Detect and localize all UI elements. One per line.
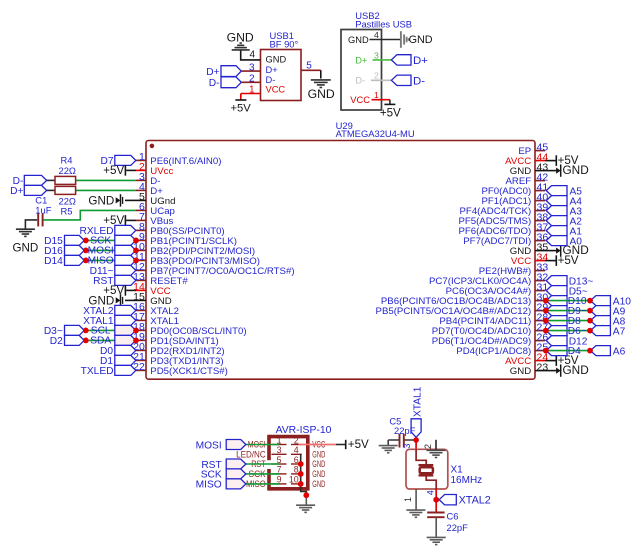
svg-text:GND: GND [312, 459, 325, 469]
svg-text:5: 5 [306, 60, 312, 71]
svg-text:3: 3 [277, 445, 282, 455]
svg-text:4: 4 [294, 445, 299, 455]
svg-text:MISO: MISO [88, 256, 114, 267]
svg-text:GND: GND [312, 450, 325, 460]
svg-text:+5V: +5V [380, 107, 401, 120]
svg-text:D14: D14 [44, 256, 63, 267]
svg-text:GND: GND [563, 363, 589, 377]
svg-text:2: 2 [249, 74, 255, 85]
svg-text:4: 4 [374, 30, 379, 40]
svg-text:22Ω: 22Ω [59, 165, 76, 176]
svg-text:3: 3 [402, 444, 412, 449]
svg-text:BF 90°: BF 90° [270, 39, 299, 50]
svg-text:PD5(XCK1/CTS#): PD5(XCK1/CTS#) [150, 366, 228, 377]
svg-text:1: 1 [403, 497, 413, 502]
svg-text:C6: C6 [447, 510, 459, 521]
svg-text:D+: D+ [10, 186, 23, 197]
svg-text:+5V: +5V [230, 103, 251, 115]
svg-text:A6: A6 [613, 346, 626, 357]
svg-text:SDA: SDA [90, 336, 111, 347]
svg-text:1: 1 [374, 90, 379, 100]
svg-text:GND: GND [312, 469, 325, 479]
svg-text:MISO: MISO [196, 480, 222, 491]
svg-text:X1: X1 [451, 465, 464, 476]
svg-text:D+: D+ [206, 67, 219, 78]
svg-text:GND: GND [409, 34, 433, 46]
svg-text:3: 3 [374, 50, 379, 60]
svg-text:3: 3 [249, 62, 255, 73]
svg-text:XTAL2: XTAL2 [459, 494, 491, 506]
svg-text:MOSI: MOSI [196, 440, 222, 451]
svg-text:GND: GND [312, 479, 325, 489]
svg-text:A0: A0 [570, 236, 583, 247]
svg-text:16MHz: 16MHz [451, 475, 483, 486]
svg-text:22pF: 22pF [447, 522, 469, 533]
svg-text:D-: D- [266, 75, 276, 85]
svg-text:D-: D- [355, 76, 365, 86]
svg-text:GND: GND [88, 194, 114, 207]
svg-text:GND: GND [13, 242, 39, 255]
svg-text:GND: GND [308, 87, 335, 101]
svg-text:VCC: VCC [266, 85, 286, 95]
svg-text:R4: R4 [61, 154, 73, 165]
svg-text:D-: D- [413, 75, 425, 87]
svg-text:D6~: D6~ [568, 326, 587, 337]
svg-text:GND: GND [227, 30, 254, 44]
svg-text:D4: D4 [568, 346, 581, 357]
svg-text:AVR-ISP-10: AVR-ISP-10 [276, 425, 332, 436]
svg-text:1uF: 1uF [35, 204, 51, 215]
svg-text:GND: GND [266, 55, 287, 65]
svg-text:Pastilles USB: Pastilles USB [355, 18, 412, 29]
svg-text:22pF: 22pF [394, 425, 416, 436]
svg-text:4: 4 [249, 49, 255, 60]
svg-text:+5V: +5V [348, 438, 369, 451]
svg-text:GND: GND [510, 366, 531, 377]
svg-text:TXLED: TXLED [81, 366, 114, 377]
svg-text:4: 4 [426, 490, 436, 495]
svg-text:D+: D+ [266, 65, 278, 75]
svg-text:10: 10 [289, 475, 299, 485]
svg-text:+5V: +5V [103, 164, 124, 177]
svg-text:D2: D2 [50, 336, 63, 347]
svg-text:2: 2 [423, 444, 433, 449]
svg-text:2: 2 [374, 71, 379, 81]
svg-text:D+: D+ [355, 55, 367, 65]
svg-text:D-: D- [209, 78, 220, 89]
svg-text:LED/NC: LED/NC [236, 450, 266, 460]
svg-text:R5: R5 [61, 206, 73, 217]
svg-text:ATMEGA32U4-MU: ATMEGA32U4-MU [336, 128, 415, 139]
svg-text:GND: GND [348, 35, 369, 45]
svg-text:23: 23 [537, 361, 549, 373]
svg-text:VCC: VCC [350, 95, 370, 105]
svg-text:D+: D+ [413, 55, 428, 67]
svg-text:A7: A7 [613, 326, 626, 337]
svg-text:2: 2 [294, 435, 299, 445]
svg-text:XTAL1: XTAL1 [413, 386, 424, 417]
svg-text:1: 1 [249, 85, 255, 96]
svg-text:GND: GND [563, 163, 589, 177]
